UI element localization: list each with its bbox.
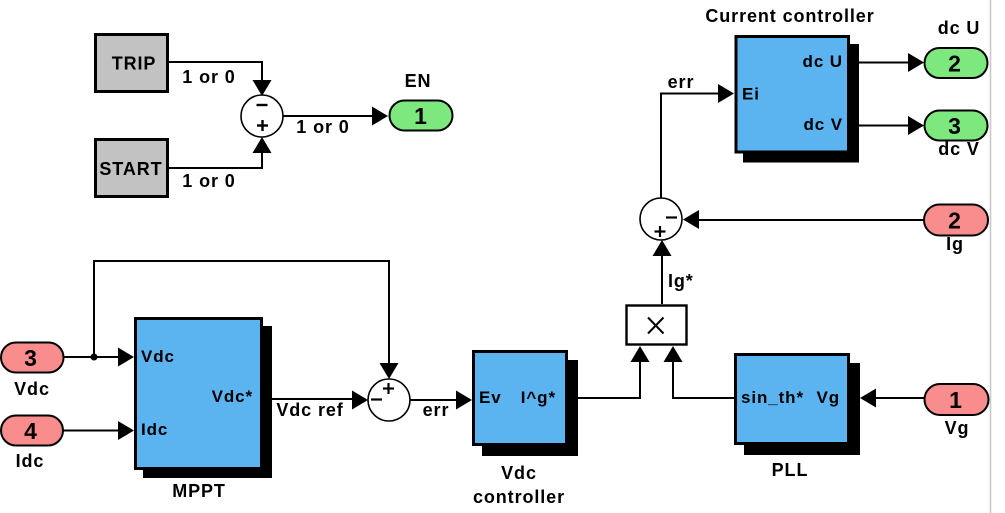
subsystem Vdc controller [474,352,579,457]
svg-text:dc U: dc U [938,18,981,38]
svg-text:4: 4 [24,418,38,444]
outport EN (1) [390,101,453,131]
wire dc V to outport 3 [851,116,924,135]
wire Sum1 to EN outport [283,107,388,126]
svg-text:Ig*: Ig* [668,271,694,291]
svg-text:1 or 0: 1 or 0 [182,171,235,191]
wire MPPT Vdc* to Sum3 [263,391,368,410]
wire Product to Sum2 [653,240,672,304]
wire Vdc to MPPT [64,348,134,367]
svg-text:Idc: Idc [141,420,168,439]
svg-text:Ig: Ig [946,234,964,254]
svg-text:Ei: Ei [742,85,760,104]
svg-text:Vg: Vg [816,388,840,407]
sum block Sum2 [640,198,682,240]
subsystem MPPT [136,319,273,479]
svg-text:3: 3 [24,345,38,371]
outport 2 (dc U) [925,48,988,78]
inport 4 (Idc) [1,416,63,446]
wire dc U to outport 2 [851,53,924,72]
svg-text:sin_th*: sin_th* [741,388,804,407]
svg-text:dc U: dc U [803,52,843,71]
svg-text:1: 1 [949,387,963,413]
product block [627,306,687,345]
wire Vg to PLL [860,389,924,408]
svg-text:START: START [99,159,162,179]
inport 1 (Vg) [925,384,989,415]
wire err from Sum2 to Ei [661,84,734,198]
sum block Sum1 [241,95,283,137]
svg-text:Current controller: Current controller [705,6,874,26]
svg-text:Vdc*: Vdc* [212,387,253,406]
sum block Sum3 [368,379,410,421]
svg-text:controller: controller [473,487,565,507]
subsystem Current controller [736,37,859,163]
svg-text:err: err [423,400,450,420]
wire PLL to Product [673,362,734,398]
outport 3 (dc V) [925,111,988,141]
svg-text:err: err [668,72,695,92]
svg-text:Vdc: Vdc [14,379,50,399]
subsystem PLL [736,355,861,456]
svg-text:2: 2 [948,51,962,77]
wire Vdc controller to Product [568,362,640,398]
svg-text:3: 3 [948,113,962,139]
svg-text:1: 1 [414,103,428,129]
wire START to Sum1 [168,137,272,168]
svg-text:2: 2 [948,208,962,234]
constant block TRIP [96,35,168,92]
window divider line [990,0,992,513]
svg-text:Vdc ref: Vdc ref [276,400,343,420]
feedback wire Vdc to Sum3 [94,261,399,379]
wire Ig to Sum2 [683,210,924,229]
svg-text:I^g*: I^g* [521,388,556,407]
svg-text:Vg: Vg [945,418,970,438]
svg-text:Idc: Idc [16,451,45,471]
wire Sum3 to Vdc controller [410,391,472,410]
product input arrows [631,346,683,362]
wire TRIP to Sum1 [168,62,272,96]
svg-text:MPPT: MPPT [172,481,226,501]
svg-text:dc V: dc V [803,115,843,134]
svg-text:EN: EN [405,71,432,91]
svg-text:dc V: dc V [938,139,980,159]
svg-text:TRIP: TRIP [112,54,157,74]
inport 3 (Vdc) [1,343,64,373]
junction node [91,354,98,361]
wire Idc to MPPT [63,421,134,440]
svg-text:Vdc: Vdc [141,347,175,366]
svg-text:Ev: Ev [479,388,502,407]
svg-text:Vdc: Vdc [501,463,537,483]
svg-text:PLL: PLL [772,460,809,480]
svg-text:1 or 0: 1 or 0 [296,117,349,137]
svg-text:1 or 0: 1 or 0 [182,67,235,87]
constant block START [96,140,168,197]
inport 2 (Ig) [924,205,988,236]
